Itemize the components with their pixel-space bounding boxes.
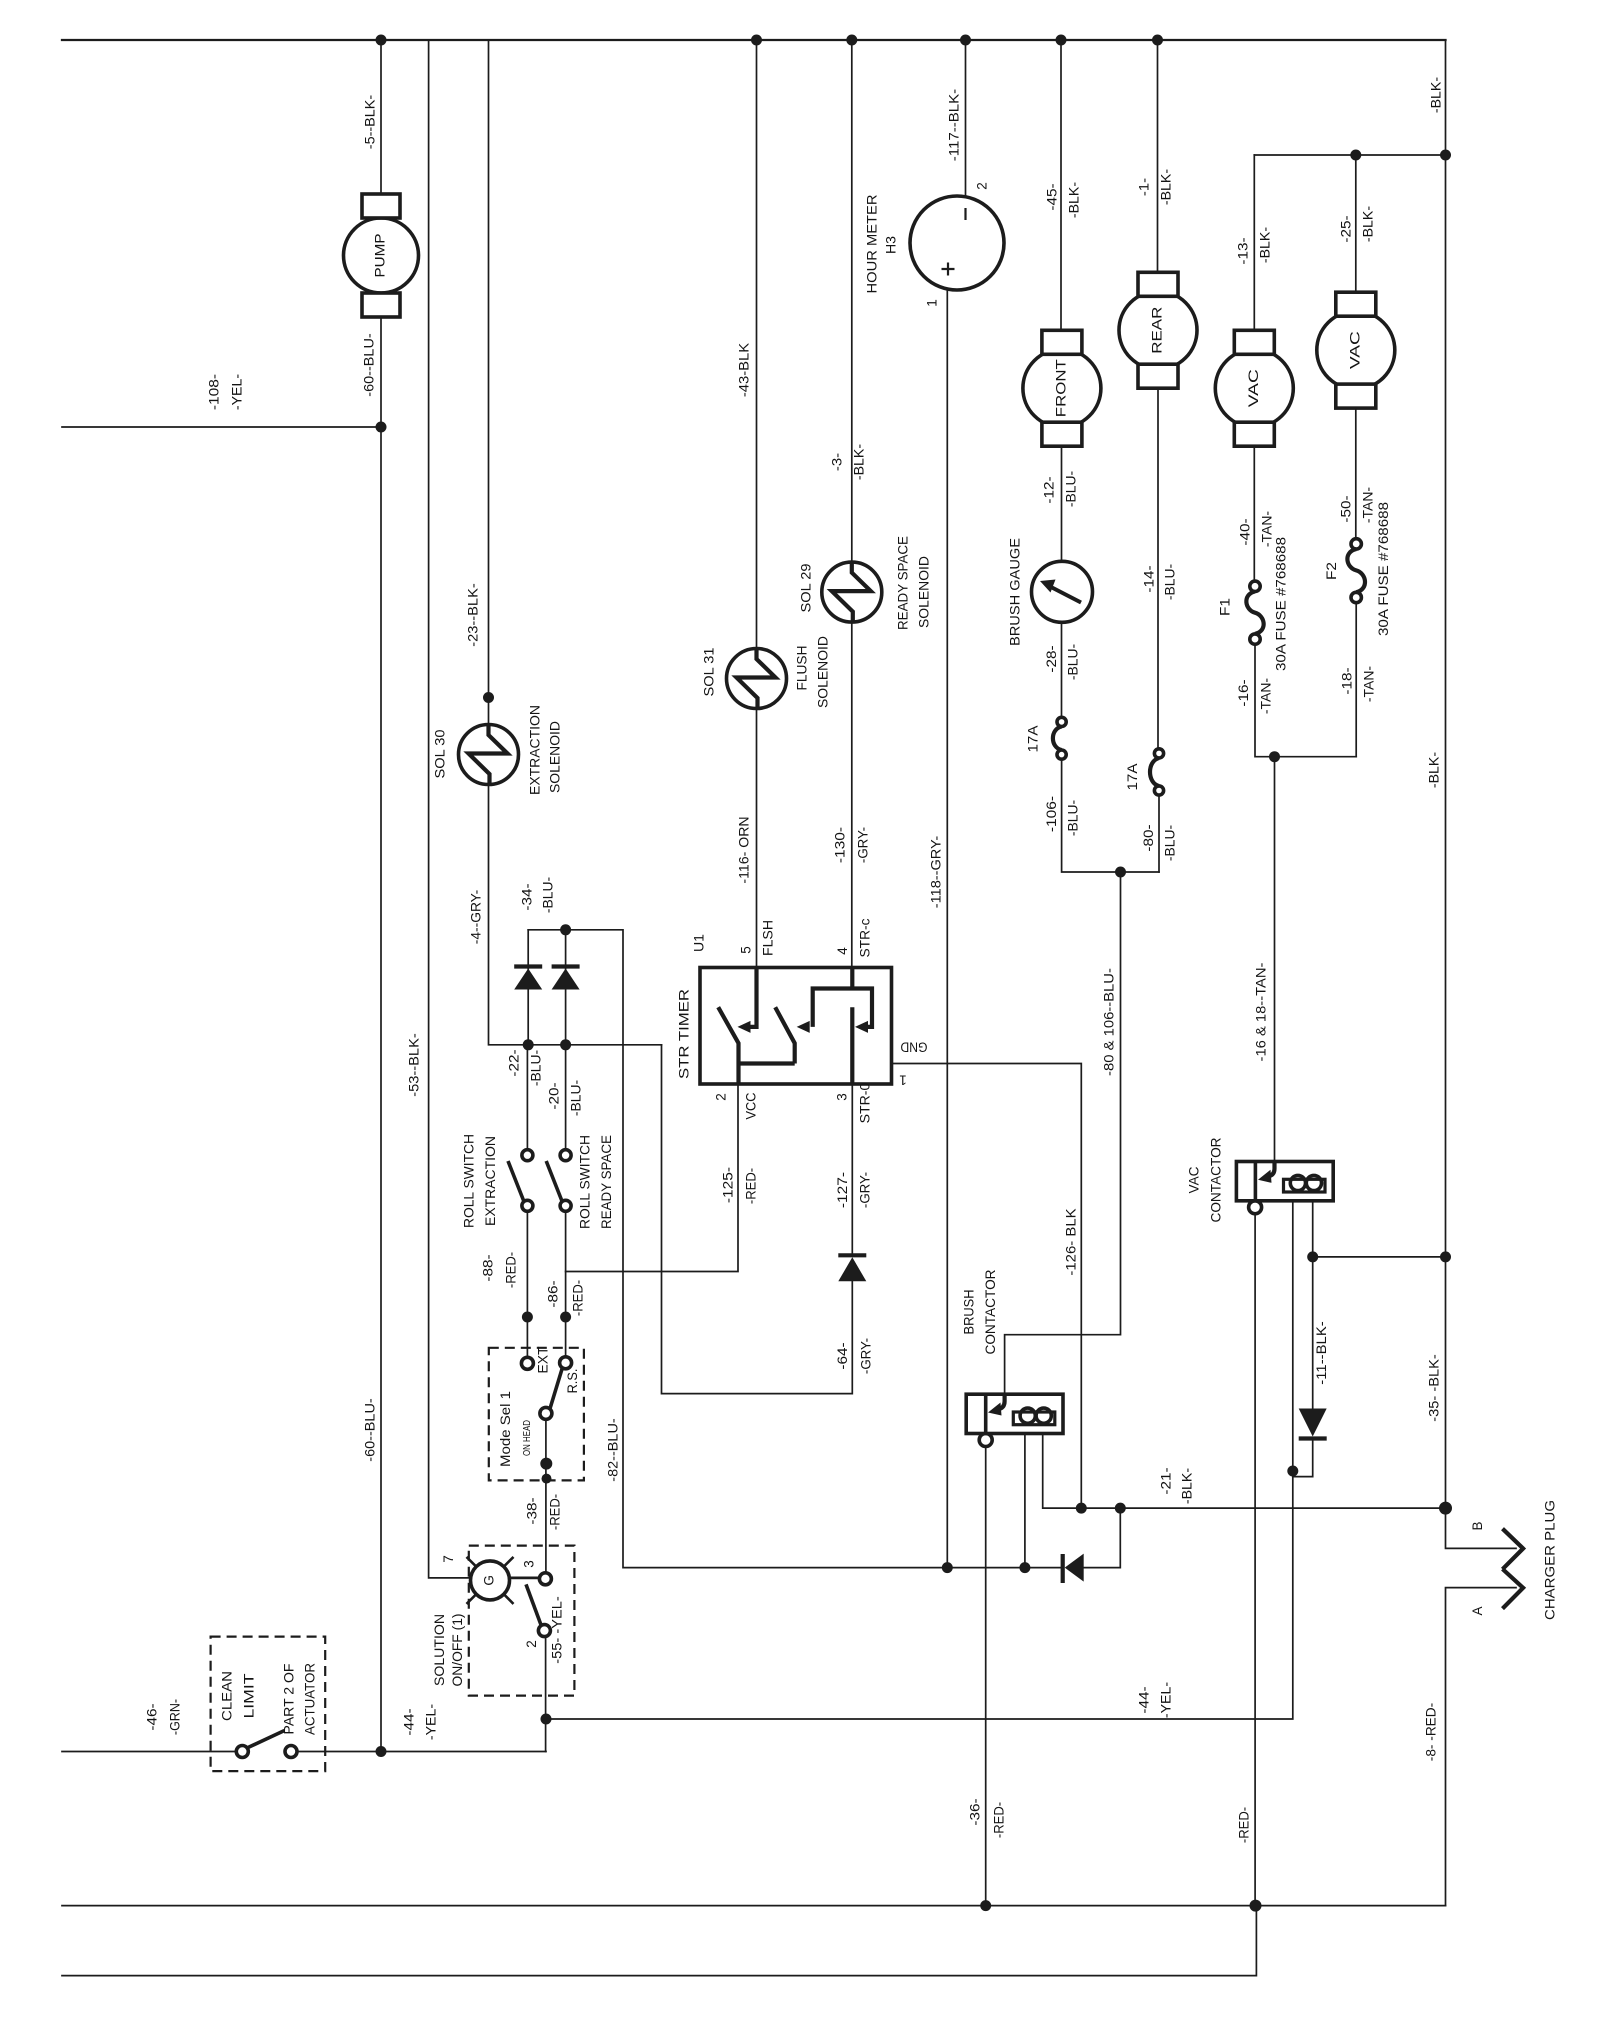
svg-text:READY SPACE: READY SPACE xyxy=(896,536,911,630)
svg-text:-RED-: -RED- xyxy=(571,1280,586,1316)
svg-text:-127-: -127- xyxy=(835,1172,850,1208)
svg-text:17A: 17A xyxy=(1125,764,1140,791)
switch ROLL SWITCH READY SPACE xyxy=(546,1135,614,1229)
svg-text:-23--BLK-: -23--BLK- xyxy=(466,583,481,646)
svg-text:-RED-: -RED- xyxy=(548,1494,563,1530)
svg-text:CLEAN: CLEAN xyxy=(220,1671,235,1721)
wire timer GND pin1 -126--BLK- xyxy=(892,1064,1082,1509)
svg-text:-22-: -22- xyxy=(507,1049,522,1076)
svg-text:Mode Sel 1: Mode Sel 1 xyxy=(498,1391,513,1467)
wire vac contactor coil right pin to -35--BLK- bus xyxy=(1312,1201,1314,1408)
wire FRONT motor bottom -12--BLU- to brush gauge xyxy=(1061,446,1063,561)
wire REAR motor top -1--BLK- xyxy=(1157,40,1159,272)
svg-text:-4--GRY-: -4--GRY- xyxy=(469,890,484,944)
svg-text:SOLUTION: SOLUTION xyxy=(432,1614,447,1686)
wire hour meter pin1 -118--GRY- long drop xyxy=(946,289,948,1568)
svg-text:STR-0: STR-0 xyxy=(858,1083,873,1124)
svg-text:-44-: -44- xyxy=(402,1708,417,1735)
svg-text:ACTUATOR: ACTUATOR xyxy=(303,1663,318,1735)
wire SOL29 top -3--BLK- xyxy=(851,40,853,562)
node -126 join -21 rail xyxy=(1076,1503,1087,1514)
svg-text:-GRY-: -GRY- xyxy=(859,1338,874,1374)
svg-text:-126- BLK: -126- BLK xyxy=(1064,1208,1079,1275)
svg-text:-BLK-: -BLK- xyxy=(1067,182,1082,218)
svg-text:-16-: -16- xyxy=(1236,679,1251,706)
node mode sel common lower xyxy=(540,1458,552,1470)
wire -53--BLK- to solution pin 7 xyxy=(429,40,471,1578)
svg-text:SOLENOID: SOLENOID xyxy=(548,721,563,793)
svg-text:BRUSH GAUGE: BRUSH GAUGE xyxy=(1008,538,1023,646)
diode on -21 rail (brush flyback) xyxy=(1063,1554,1084,1583)
svg-text:GND: GND xyxy=(900,1039,927,1054)
svg-text:-RED-: -RED- xyxy=(744,1168,759,1204)
wire VAC2 motor top -25--BLK- xyxy=(1355,155,1357,292)
svg-text:VAC: VAC xyxy=(1347,331,1362,369)
svg-text:FLUSH: FLUSH xyxy=(795,646,810,691)
node vac coil right y=1257 xyxy=(1307,1251,1318,1262)
svg-text:-BLU-: -BLU- xyxy=(1163,564,1178,600)
motor VAC right xyxy=(1317,292,1395,408)
node pump/-108 junction xyxy=(376,422,387,433)
svg-text:FLSH: FLSH xyxy=(761,920,776,956)
wire REAR motor bottom -14--BLU- xyxy=(1157,388,1159,749)
svg-text:4: 4 xyxy=(835,947,850,955)
svg-text:-BLU-: -BLU- xyxy=(1064,471,1079,507)
svg-text:VAC: VAC xyxy=(1246,369,1261,407)
wire vac motors top link y=155 xyxy=(1254,154,1445,156)
svg-text:-16 & 18--TAN-: -16 & 18--TAN- xyxy=(1254,963,1269,1062)
node fuses common xyxy=(1269,751,1280,762)
svg-text:ROLL SWITCH: ROLL SWITCH xyxy=(578,1135,593,1229)
diode vac flyback -11--BLK- xyxy=(1299,1409,1327,1439)
svg-text:-BLK-: -BLK- xyxy=(1180,1468,1195,1504)
diode D-ext left (on -22 branch) xyxy=(514,930,542,1045)
wire breaker1 bottom -106--BLU- xyxy=(1062,759,1159,872)
node breakers common xyxy=(1115,867,1126,878)
node vac red bottom xyxy=(1250,1900,1262,1912)
svg-text:PUMP: PUMP xyxy=(373,234,388,278)
wire top bus -BLK- xyxy=(62,39,1446,41)
svg-text:-118--GRY-: -118--GRY- xyxy=(929,836,944,908)
wire SOL30 bottom -4--GRY- to diode rail xyxy=(489,785,662,1045)
svg-text:-RED-: -RED- xyxy=(504,1252,519,1288)
svg-text:-117--BLK-: -117--BLK- xyxy=(947,89,962,161)
wire roll switch 1 bottom -88--RED- xyxy=(526,1211,528,1357)
svg-text:-3-: -3- xyxy=(830,453,845,471)
svg-text:-BLU-: -BLU- xyxy=(569,1080,584,1116)
node -36 red bottom xyxy=(980,1900,991,1911)
svg-text:-13-: -13- xyxy=(1236,237,1251,264)
svg-text:CHARGER PLUG: CHARGER PLUG xyxy=(1543,1500,1558,1620)
timer pin 3 STR-0 stem xyxy=(835,1007,873,1123)
node -44 yel left xyxy=(541,1714,552,1725)
svg-text:-80-: -80- xyxy=(1141,824,1156,851)
node -34--BLU- xyxy=(560,924,571,935)
wire SOL30 top -23--BLK- xyxy=(488,40,490,725)
svg-text:-RED-: -RED- xyxy=(992,1802,1007,1838)
svg-text:BRUSH: BRUSH xyxy=(962,1290,977,1335)
svg-text:2: 2 xyxy=(975,182,990,190)
svg-text:-108-: -108- xyxy=(207,374,222,410)
svg-text:SOL 29: SOL 29 xyxy=(799,564,814,613)
motor VAC left xyxy=(1215,330,1293,446)
svg-text:ON HEAD: ON HEAD xyxy=(521,1420,533,1456)
wire F2 bottom -18--TAN- xyxy=(1355,603,1357,757)
svg-text:VCC: VCC xyxy=(744,1092,759,1119)
svg-text:B: B xyxy=(1470,1521,1485,1530)
wire VAC1 motor top -13--BLK- xyxy=(1253,155,1255,330)
node -82/-118 join xyxy=(942,1562,953,1573)
svg-text:ROLL SWITCH: ROLL SWITCH xyxy=(462,1134,477,1228)
fuse F1 30A xyxy=(1218,537,1289,671)
svg-text:READY SPACE: READY SPACE xyxy=(599,1135,614,1229)
svg-text:-35- -BLK-: -35- -BLK- xyxy=(1427,1354,1442,1421)
timer pin 1 GND labels xyxy=(899,1039,927,1087)
svg-text:-14-: -14- xyxy=(1142,565,1157,592)
svg-text:-125-: -125- xyxy=(721,1167,736,1203)
svg-text:STR-c: STR-c xyxy=(858,918,873,957)
svg-text:-88-: -88- xyxy=(481,1254,496,1281)
node flyback branch on -21 rail xyxy=(1115,1503,1126,1514)
svg-text:A: A xyxy=(1470,1606,1485,1615)
timer switch 1 (VCC pin 2) xyxy=(714,1007,795,1119)
svg-text:-20-: -20- xyxy=(547,1082,562,1109)
node vac coil left/diode return xyxy=(1287,1466,1298,1477)
svg-text:-55- -YEL-: -55- -YEL- xyxy=(550,1596,565,1663)
wire solution pin2 -55--YEL- xyxy=(545,1637,547,1752)
svg-text:1: 1 xyxy=(925,299,940,307)
wire -16 & 18--TAN- drop to vac contactor xyxy=(1274,757,1276,1162)
svg-text:-106-: -106- xyxy=(1044,796,1059,832)
solenoid SOL 30 xyxy=(433,705,563,795)
svg-text:-80 & 106--BLU-: -80 & 106--BLU- xyxy=(1102,968,1117,1076)
solenoid SOL 29 xyxy=(799,536,932,630)
wire VAC1 motor bottom -40--TAN- to F1 xyxy=(1253,446,1255,581)
svg-text:-BLK-: -BLK- xyxy=(852,444,867,480)
wire vac contactor small circle pin -RED- drop xyxy=(1254,1214,1256,1906)
svg-text:-116- ORN: -116- ORN xyxy=(737,816,752,883)
wire clean limit rail -46--GRN- xyxy=(62,1751,236,1753)
svg-text:-21-: -21- xyxy=(1159,1467,1174,1494)
svg-text:-38-: -38- xyxy=(525,1497,540,1524)
svg-text:-BLK-: -BLK- xyxy=(1429,77,1444,113)
svg-text:SOLENOID: SOLENOID xyxy=(917,556,932,628)
node diode rail right xyxy=(560,1039,571,1050)
svg-text:1: 1 xyxy=(899,1072,907,1087)
svg-text:CONTACTOR: CONTACTOR xyxy=(1209,1137,1224,1222)
motor FRONT xyxy=(1023,330,1101,446)
svg-text:-82--BLU-: -82--BLU- xyxy=(606,1418,621,1481)
svg-text:-BLU-: -BLU- xyxy=(1066,644,1081,680)
svg-text:-TAN-: -TAN- xyxy=(1260,511,1275,547)
node -86 terminal xyxy=(560,1312,571,1323)
svg-text:-GRY-: -GRY- xyxy=(858,1172,873,1208)
svg-text:EXTRACTION: EXTRACTION xyxy=(528,705,543,795)
timer switch 2 xyxy=(775,1007,795,1063)
svg-text:PART 2 OF: PART 2 OF xyxy=(282,1664,297,1735)
wire clean limit to -60 junction and solution riser xyxy=(297,1751,546,1753)
svg-text:EXTRACTION: EXTRACTION xyxy=(483,1136,498,1226)
svg-text:LIMIT: LIMIT xyxy=(242,1674,257,1719)
wire roll switch 2 top -20--BLU- xyxy=(565,1045,567,1150)
svg-text:-BLK-: -BLK- xyxy=(1361,206,1376,242)
relay BRUSH CONTACTOR xyxy=(962,1269,1063,1446)
svg-text:-60--BLU-: -60--BLU- xyxy=(362,333,377,396)
wire vac flyback diode bottom loop -11--BLK- xyxy=(1293,1439,1313,1477)
wire diode cathode rail -34--BLU- / -82--BLU- drop xyxy=(528,930,1025,1568)
svg-text:-1-: -1- xyxy=(1137,178,1152,196)
node -21/-35 join xyxy=(1439,1502,1452,1515)
svg-text:-BLK-: -BLK- xyxy=(1258,227,1273,263)
svg-text:-GRY-: -GRY- xyxy=(856,827,871,863)
wire vac coil link y=1257 xyxy=(1313,1256,1446,1258)
svg-text:-BLK-: -BLK- xyxy=(1159,169,1174,205)
svg-text:30A FUSE #768688: 30A FUSE #768688 xyxy=(1274,537,1289,671)
svg-text:2: 2 xyxy=(524,1640,539,1648)
svg-text:-40-: -40- xyxy=(1238,518,1253,545)
svg-text:F2: F2 xyxy=(1324,562,1339,580)
svg-text:-46-: -46- xyxy=(145,1703,160,1730)
timer pin 5 FLSH arm xyxy=(738,920,776,1033)
diode D-ext right (on -20 branch) xyxy=(552,930,580,1045)
svg-text:-86-: -86- xyxy=(546,1280,561,1307)
svg-text:-BLK-: -BLK- xyxy=(1427,752,1442,788)
svg-text:-YEL-: -YEL- xyxy=(424,1704,439,1740)
op-amp U1 STR TIMER box xyxy=(677,934,892,1084)
svg-text:-45-: -45- xyxy=(1045,183,1060,210)
svg-text:-64-: -64- xyxy=(835,1342,850,1369)
brush gauge xyxy=(1008,538,1093,646)
wire roll switch 2 bottom -86--RED- xyxy=(565,1211,567,1356)
svg-text:-11--BLK-: -11--BLK- xyxy=(1314,1321,1329,1384)
svg-text:SOL 30: SOL 30 xyxy=(433,730,448,779)
wire bottom-most rail xyxy=(62,1906,1256,1976)
svg-text:-34-: -34- xyxy=(520,883,535,910)
wire right bus -BLK- down to charger B xyxy=(1446,40,1517,1548)
svg-text:F1: F1 xyxy=(1218,598,1233,616)
svg-text:U1: U1 xyxy=(692,934,707,952)
wire hour meter pin2 -117--BLK- xyxy=(965,40,967,197)
wire brush flyback branch xyxy=(1083,1508,1121,1568)
svg-text:-BLU-: -BLU- xyxy=(541,877,556,913)
wire F1 bottom -16--TAN- xyxy=(1255,644,1356,756)
svg-text:-36-: -36- xyxy=(968,1798,983,1825)
node brush coil left join xyxy=(1019,1562,1030,1573)
svg-text:-50-: -50- xyxy=(1339,495,1354,522)
fuse F2 30A xyxy=(1324,502,1391,636)
node -88 terminal xyxy=(522,1312,533,1323)
timer pin 4 STR-c arm with arrows xyxy=(797,918,873,1033)
svg-text:G: G xyxy=(482,1575,497,1586)
svg-text:-12-: -12- xyxy=(1042,476,1057,503)
svg-text:SOLENOID: SOLENOID xyxy=(816,636,831,708)
svg-text:-YEL-: -YEL- xyxy=(1159,1682,1174,1718)
svg-text:ON/OFF (1): ON/OFF (1) xyxy=(450,1614,465,1687)
wire VAC2 motor bottom -50--TAN- to F2 xyxy=(1355,408,1357,539)
svg-text:-60--BLU-: -60--BLU- xyxy=(363,1398,378,1461)
node dots top bus xyxy=(376,35,387,46)
wire -64--GRY- loop to STR-0 diode xyxy=(662,1045,853,1394)
svg-text:-18-: -18- xyxy=(1340,667,1355,694)
wire -21--BLK- rail xyxy=(1043,1434,1446,1509)
svg-text:-8- -RED-: -8- -RED- xyxy=(1424,1703,1439,1761)
svg-text:-25-: -25- xyxy=(1339,215,1354,242)
svg-text:EXT: EXT xyxy=(536,1347,551,1374)
node dots y=155 xyxy=(1350,150,1361,161)
svg-text:REAR: REAR xyxy=(1150,306,1165,353)
wire mode sel common -38--RED- xyxy=(545,1419,547,1572)
svg-text:-53--BLK-: -53--BLK- xyxy=(407,1033,422,1096)
wire SOL31 top -43-BLK xyxy=(756,40,758,649)
svg-text:-43-BLK: -43-BLK xyxy=(737,343,752,397)
svg-text:-28-: -28- xyxy=(1044,645,1059,672)
motor REAR xyxy=(1119,272,1197,388)
hour meter H3 xyxy=(865,182,1004,307)
svg-text:HOUR METER: HOUR METER xyxy=(865,194,880,293)
wire vac contactor coil left pin / -44--YEL- riser xyxy=(546,1201,1293,1719)
charger plug chevrons xyxy=(1470,1500,1558,1620)
svg-text:STR TIMER: STR TIMER xyxy=(677,989,692,1079)
svg-text:-TAN-: -TAN- xyxy=(1259,678,1274,714)
switch SOLUTION ON/OFF (1) dashed box with lamp G xyxy=(432,1546,574,1696)
wire breaker2 bottom -80--BLU- xyxy=(1158,795,1160,872)
svg-text:30A FUSE #768688: 30A FUSE #768688 xyxy=(1376,502,1391,636)
switch ROLL SWITCH EXTRACTION xyxy=(462,1134,533,1228)
circuit breaker 17A #2 xyxy=(1125,749,1164,795)
node on SOL30 wire xyxy=(483,692,494,703)
svg-text:-TAN-: -TAN- xyxy=(1361,487,1376,523)
node clean limit / -60 blu xyxy=(376,1746,387,1757)
svg-text:CONTACTOR: CONTACTOR xyxy=(983,1269,998,1354)
svg-text:3: 3 xyxy=(835,1093,850,1101)
wire brush gauge to breaker 17A -28--BLU- xyxy=(1061,622,1063,717)
wire brush diode to coil pin xyxy=(1025,1434,1063,1568)
wire -108--YEL- xyxy=(62,426,381,428)
svg-text:-5--BLK-: -5--BLK- xyxy=(363,95,378,149)
wire roll-switch common link to timer VCC -125--RED- xyxy=(566,1084,738,1272)
svg-text:3: 3 xyxy=(522,1560,537,1568)
svg-text:SOL 31: SOL 31 xyxy=(702,648,717,697)
svg-text:7: 7 xyxy=(441,1555,456,1563)
wire brush contactor small circle pin -36--RED- drop xyxy=(985,1447,987,1906)
wire FRONT motor top -45--BLK- xyxy=(1060,40,1062,330)
relay VAC CONTACTOR xyxy=(1187,1137,1334,1222)
svg-text:17A: 17A xyxy=(1026,726,1041,753)
svg-text:H3: H3 xyxy=(884,236,899,254)
svg-text:-44-: -44- xyxy=(1137,1686,1152,1713)
svg-text:-TAN-: -TAN- xyxy=(1362,666,1377,702)
switch Mode Sel 1 dashed box xyxy=(489,1347,584,1481)
diode on STR-0 line (-127/-64 GRY) xyxy=(838,1255,866,1281)
svg-text:-130-: -130- xyxy=(833,827,848,863)
svg-text:-GRN-: -GRN- xyxy=(168,1699,183,1735)
svg-text:-BLU-: -BLU- xyxy=(1066,800,1081,836)
svg-text:5: 5 xyxy=(739,946,754,954)
wire SOL31 bottom -116-ORN to timer pin5 xyxy=(756,709,758,968)
wire SOL29 bottom -130--GRY- to timer pin4 xyxy=(851,622,853,967)
wire bottom rail -8--RED- xyxy=(62,1905,1446,1907)
circuit breaker 17A #1 xyxy=(1026,717,1067,759)
svg-text:-BLU-: -BLU- xyxy=(529,1050,544,1086)
wire roll switch 1 top -22--BLU- xyxy=(526,1045,528,1150)
svg-text:VAC: VAC xyxy=(1187,1166,1202,1193)
svg-text:-YEL-: -YEL- xyxy=(230,374,245,410)
node diode rail left xyxy=(523,1039,534,1050)
wire pump top -5--BLK- xyxy=(380,40,382,194)
svg-text:-BLU-: -BLU- xyxy=(1163,825,1178,861)
wire pump bottom -60--BLU- and long drop to clean-limit rail xyxy=(380,317,382,1752)
wire timer pin3 STR-0 -127--GRY- xyxy=(851,1084,853,1253)
wire charger A to bottom rail xyxy=(1446,1588,1517,1906)
solenoid SOL 31 xyxy=(702,636,831,709)
svg-text:R.S.: R.S. xyxy=(565,1369,580,1394)
wire -80 & 106--BLU- drop to brush contactor coil arrow xyxy=(1005,872,1121,1394)
svg-text:2: 2 xyxy=(714,1093,729,1101)
switch CLEAN LIMIT dashed box xyxy=(211,1637,326,1772)
svg-text:FRONT: FRONT xyxy=(1053,359,1068,417)
motor PUMP xyxy=(344,194,419,317)
svg-text:-RED-: -RED- xyxy=(1237,1807,1252,1843)
